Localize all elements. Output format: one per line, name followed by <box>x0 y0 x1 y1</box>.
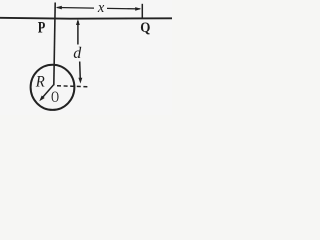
svg-text:P: P <box>38 19 46 37</box>
d dimension lower segment with down arrowhead <box>79 62 82 81</box>
radius arrow R <box>42 85 54 99</box>
tick at Q <box>141 4 143 18</box>
svg-text:R: R <box>35 74 45 90</box>
svg-text:Q: Q <box>140 19 150 35</box>
d dimension upper segment with up arrowhead <box>77 21 79 45</box>
svg-text:d: d <box>73 45 82 62</box>
svg-text:O: O <box>51 88 59 106</box>
dashed line from O to right <box>57 86 88 87</box>
vertical line from P to circle centre O <box>54 3 55 86</box>
horizontal surface line <box>0 17 172 20</box>
x dimension line left segment with left arrowhead <box>57 7 94 10</box>
x dimension line right segment with right arrowhead <box>107 7 140 10</box>
svg-text:x: x <box>97 0 105 16</box>
circle (ring) <box>31 65 75 110</box>
